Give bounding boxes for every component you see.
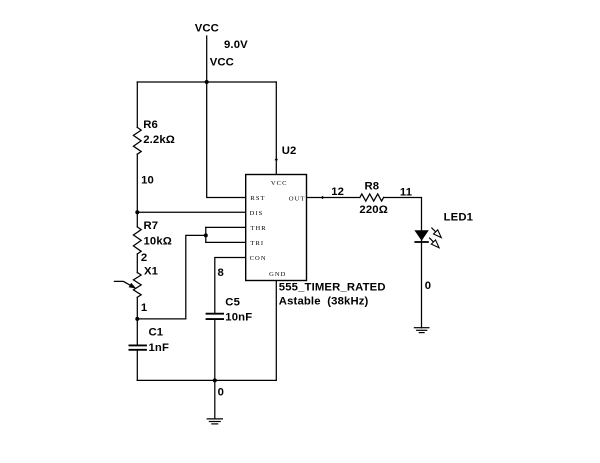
svg-text:8: 8 <box>218 267 224 279</box>
svg-text:DIS: DIS <box>250 210 264 217</box>
svg-text:11: 11 <box>400 187 412 199</box>
svg-text:X1: X1 <box>144 265 158 277</box>
svg-text:THR: THR <box>250 225 266 232</box>
svg-text:RST: RST <box>250 195 265 202</box>
svg-text:10nF: 10nF <box>225 312 252 324</box>
svg-text:VCC: VCC <box>195 23 219 35</box>
svg-text:10kΩ: 10kΩ <box>144 236 173 248</box>
svg-text:C5: C5 <box>225 296 240 308</box>
svg-text:R8: R8 <box>365 181 380 193</box>
svg-text:1: 1 <box>141 302 147 314</box>
svg-text:LED1: LED1 <box>444 212 473 224</box>
svg-text:TRI: TRI <box>250 240 264 247</box>
svg-text:12: 12 <box>331 186 344 198</box>
svg-text:555_TIMER_RATED: 555_TIMER_RATED <box>279 282 386 294</box>
svg-text:0: 0 <box>425 280 431 292</box>
svg-text:R6: R6 <box>143 119 158 131</box>
svg-text:2: 2 <box>141 252 147 264</box>
svg-text:2.2kΩ: 2.2kΩ <box>143 134 175 146</box>
svg-text:1nF: 1nF <box>149 342 170 354</box>
svg-text:U2: U2 <box>282 145 297 157</box>
svg-text:VCC: VCC <box>210 57 234 69</box>
svg-text:10: 10 <box>141 175 154 187</box>
svg-text:CON: CON <box>250 255 267 262</box>
svg-text:9.0V: 9.0V <box>224 39 248 51</box>
svg-text:OUT: OUT <box>289 195 306 202</box>
svg-text:VCC: VCC <box>271 180 288 187</box>
svg-text:GND: GND <box>269 271 286 278</box>
svg-text:R7: R7 <box>144 220 159 232</box>
svg-text:Astable (38kHz): Astable (38kHz) <box>279 296 369 308</box>
svg-text:C1: C1 <box>149 326 164 338</box>
svg-text:220Ω: 220Ω <box>359 204 388 216</box>
svg-text:0: 0 <box>218 387 224 399</box>
